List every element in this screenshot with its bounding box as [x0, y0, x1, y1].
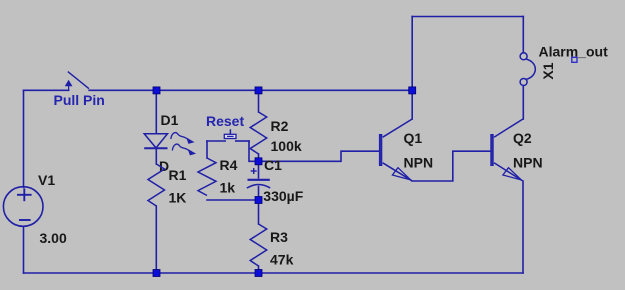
svg-text:R3: R3 [270, 229, 288, 245]
switch SW pull-pin actuator arrow [66, 81, 72, 90]
svg-text:Reset: Reset [206, 113, 244, 129]
svg-text:47k: 47k [270, 252, 294, 268]
wire C1 top lead [258, 161, 260, 178]
resistor R1 [148, 164, 165, 206]
buzzer X1 [520, 53, 535, 86]
voltage source V1 [3, 187, 43, 227]
wire node A to Q1 base [259, 151, 380, 161]
junction at node after switch [153, 87, 160, 94]
svg-text:R4: R4 [220, 157, 238, 173]
wire R4 bottom to C1 bottom node [207, 199, 259, 201]
wire reset switch bar left [207, 140, 225, 142]
capacitor C1 [247, 168, 270, 188]
wire X1 top lead [522, 17, 524, 53]
wire top-left horizontal to switch [24, 89, 69, 91]
svg-text:D1: D1 [161, 112, 179, 128]
LED D1 emission arrow 2 [172, 144, 194, 155]
LED D1 [144, 134, 167, 149]
switch SW pull-pin blade [68, 72, 89, 89]
wire R2 bottom lead [258, 154, 260, 161]
svg-text:1k: 1k [220, 179, 236, 195]
svg-text:X1: X1 [540, 62, 556, 79]
svg-text:Pull Pin: Pull Pin [54, 92, 105, 108]
wire C1 bottom lead [258, 187, 260, 201]
svg-text:R1: R1 [169, 167, 187, 183]
wire Q2 emitter down to bottom rail [522, 181, 524, 273]
resistor R3 [250, 224, 267, 266]
wire R1 bottom to rail [155, 206, 157, 273]
wire reset switch bar right [236, 140, 249, 142]
junction R2 top [255, 87, 262, 94]
svg-text:C1: C1 [264, 157, 282, 173]
svg-text:NPN: NPN [513, 155, 543, 171]
wire switch to main node run [89, 89, 412, 91]
wire D1 anode lead [155, 90, 157, 133]
LED D1 emission arrow 1 [171, 133, 193, 144]
transistor Q1 [379, 119, 412, 181]
wire R2 top lead [258, 90, 260, 112]
wire D1 cathode to R1 [155, 148, 157, 164]
wire vertical into Q1 collector [411, 17, 413, 120]
wire R3 bottom lead [258, 266, 260, 273]
transistor Q2 [491, 119, 523, 181]
junction C1 bottom node [255, 197, 262, 204]
svg-text:3.00: 3.00 [40, 230, 67, 246]
wire X1 bottom lead to Q2 collector [522, 86, 524, 119]
wire left vertical (bottom) [23, 227, 25, 273]
port square Alarm_out [572, 57, 577, 62]
junction R1 bottom rail [153, 270, 160, 277]
reset pushbutton [224, 129, 236, 138]
svg-text:100k: 100k [271, 138, 302, 154]
resistor R4 [198, 158, 216, 196]
svg-text:330µF: 330µF [263, 188, 303, 204]
junction Q1 collector node [409, 87, 416, 94]
wire R4 top lead [206, 141, 208, 158]
junction C1 top node [255, 158, 262, 165]
wire reset switch right post [249, 141, 259, 161]
svg-text:V1: V1 [38, 172, 55, 188]
svg-text:Q2: Q2 [513, 130, 532, 146]
svg-text:NPN: NPN [404, 155, 434, 171]
svg-text:1K: 1K [169, 190, 187, 206]
svg-text:Q1: Q1 [404, 130, 423, 146]
wire left vertical (top) [23, 90, 25, 187]
junction R3 bottom rail [255, 270, 262, 277]
wire Q1 emitter to Q2 base [412, 151, 491, 181]
wire R3 top lead [258, 200, 260, 224]
wire bottom rail [24, 272, 524, 274]
resistor R2 [250, 112, 267, 154]
wire top rail [412, 16, 523, 18]
svg-text:R2: R2 [271, 118, 289, 134]
